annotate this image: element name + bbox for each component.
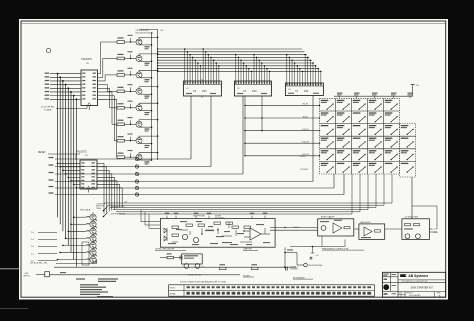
- svg-text:RESET: RESET: [38, 152, 46, 154]
- transistor tree Q10-Q16 cascade: [90, 212, 97, 262]
- wire microphone drop: [284, 247, 297, 268]
- svg-text:CH 2(+8) SEL, 285: CH 2(+8) SEL, 285: [30, 263, 48, 265]
- connector pin table J2: [169, 285, 375, 296]
- op-amp U1 74154 decoder: [183, 79, 221, 98]
- node J1 271 4279 connector: [429, 229, 437, 234]
- keyswitch S1-S34 cells with switch symbols: [321, 100, 414, 173]
- op-amp U7 level indicator and limiter block: [160, 213, 275, 248]
- node FREQUENCY DETECTOR label: [322, 248, 364, 250]
- node drawing number row: [398, 292, 441, 298]
- note S-POS connectors line: [180, 281, 226, 284]
- capacitor trunk stubs: [180, 256, 182, 260]
- node FILTER label: [243, 275, 254, 277]
- node TELEPHONE COUPLER label: [193, 215, 225, 219]
- svg-text:ISOLATED: ISOLATED: [215, 216, 225, 219]
- svg-text:2N2222A OR 2N4401): 2N2222A OR 2N4401): [135, 31, 153, 34]
- op-amp U5 74LS373 latch: [81, 57, 98, 110]
- svg-text:GEN-MODE: GEN-MODE: [360, 222, 371, 224]
- svg-text:PRELOADA: PRELOADA: [80, 209, 91, 212]
- node revision stamp: [383, 274, 396, 295]
- svg-text:DNX STARTER KIT: DNX STARTER KIT: [411, 286, 433, 289]
- svg-text:(5+3) OFF SEL: (5+3) OFF SEL: [41, 107, 56, 109]
- node LEVEL INDICATOR label: [155, 248, 186, 251]
- power +5V rail for transistor bank: [135, 29, 164, 160]
- wire RESET line: [38, 152, 80, 160]
- keyswitch matrix grid: [320, 98, 400, 174]
- svg-text:E12-15: E12-15: [302, 129, 309, 131]
- svg-text:E8-11: E8-11: [303, 116, 309, 118]
- svg-text:154: 154: [202, 89, 207, 93]
- notes text block: [60, 272, 118, 297]
- wire bus taps into U6: [57, 163, 80, 189]
- op-amp U10 mode generator block: [385, 216, 430, 239]
- wire U6 right outputs staircase: [97, 163, 122, 213]
- resistor R47 attenuator pad: [252, 264, 259, 269]
- border frame: [21, 21, 446, 297]
- svg-text:74: 74: [193, 89, 196, 93]
- op-amp U2 74154 decoder: [234, 81, 271, 96]
- svg-text:E24-27: E24-27: [300, 156, 306, 158]
- svg-text:E16-19: E16-19: [302, 142, 309, 144]
- microphone MK1: [297, 263, 323, 267]
- svg-text:DWG NO.: DWG NO.: [406, 292, 413, 294]
- op-amp U9 gen mode block: [354, 222, 385, 240]
- wire tree emitter down to rail: [56, 259, 97, 263]
- node ATTENUATE label: [293, 276, 313, 279]
- svg-text:154: 154: [252, 89, 257, 93]
- svg-text:INPUT: INPUT: [24, 275, 31, 277]
- op-amp U6 74LS373 latch lower: [76, 149, 97, 192]
- wire base feeds into transistor tree: [57, 216, 90, 260]
- svg-text:+12 MODE GEN: +12 MODE GEN: [404, 216, 419, 218]
- svg-text:154: 154: [304, 89, 309, 93]
- node AB Systems logo: [400, 274, 428, 283]
- svg-text:TELEPHONE: TELEPHONE: [193, 215, 205, 217]
- svg-text:4279: 4279: [434, 232, 438, 234]
- svg-text:CERAMIC: CERAMIC: [290, 268, 299, 271]
- svg-text:MICROPHONE: MICROPHONE: [309, 265, 323, 267]
- op-amp U8 alert oscillator block: [270, 215, 354, 236]
- svg-text:/LOADA: /LOADA: [44, 108, 52, 111]
- svg-text:4/98: 4/98: [437, 293, 440, 295]
- wire lower left stub labels: [31, 232, 57, 262]
- resistor R46 600ohm: [220, 264, 227, 269]
- node CH2 SEL label: [30, 263, 48, 265]
- wire left input lines to U5: [45, 73, 81, 100]
- svg-text:TREE: TREE: [96, 208, 102, 210]
- wire row feed lines E4-E23 into matrix: [244, 96, 320, 157]
- transistor bank Q1-Q8 relay drivers: [136, 37, 158, 165]
- svg-text:AB Systems: AB Systems: [408, 274, 428, 278]
- wire U3 pin drops from bus: [286, 54, 322, 83]
- svg-text:LEVEL INDICATOR: LEVEL INDICATOR: [155, 248, 175, 251]
- power +15V input: [24, 272, 241, 278]
- keyswitch matrix extended column: [400, 124, 416, 177]
- svg-text:74: 74: [243, 89, 246, 93]
- title block: [382, 272, 445, 297]
- wire data bus verticals: [57, 73, 78, 267]
- resistor R45 input: [160, 253, 182, 258]
- node connector bracket at tree: [82, 242, 89, 265]
- node DNX STARTER KIT title: [411, 286, 433, 289]
- wire LOADA enable line: [41, 106, 87, 112]
- diode bank D1-D7 on return lines: [49, 157, 139, 196]
- svg-text:SIZE: SIZE: [399, 293, 402, 295]
- wire audio rail: [54, 266, 296, 267]
- wire U2 pin drops from bus: [235, 54, 270, 81]
- svg-text:SIGNAL: SIGNAL: [170, 293, 176, 296]
- svg-text:74LS373: 74LS373: [76, 149, 87, 153]
- svg-text:S-POS CONNECTORS (TAILBLAZED): S-POS CONNECTORS (TAILBLAZED) ONE TO ONE…: [180, 281, 226, 284]
- control switch tree labels: [80, 202, 128, 218]
- svg-text:74LS373: 74LS373: [81, 57, 92, 61]
- svg-text:E4-E7: E4-E7: [303, 104, 309, 106]
- svg-text:D-9 100285: D-9 100285: [409, 295, 421, 297]
- wire top select bus: [157, 48, 321, 72]
- capacitor C20 contact ceramic: [286, 266, 300, 271]
- svg-text:7110 REP. 500, Ca 92612-517 IN: 7110 REP. 500, Ca 92612-517 INC: [402, 281, 429, 283]
- svg-text:ALERT ON OFF: ALERT ON OFF: [321, 215, 336, 218]
- wire fan from U5 outputs to transistor bank: [98, 42, 118, 157]
- scan artifact marks: [0, 269, 28, 309]
- transformer T1 coupling block: [182, 254, 203, 277]
- resistor bank R1-R8 base resistors: [117, 35, 136, 159]
- power +5V rail above keyswitch matrix: [334, 85, 420, 99]
- node O1 reference circle: [46, 48, 50, 52]
- svg-text:LM 324: LM 324: [293, 227, 299, 229]
- wire mid horizontal trunk lines: [104, 174, 437, 232]
- node LIMITER label: [243, 249, 258, 251]
- wire nested return lines to diode bank: [55, 96, 344, 195]
- wire U1 pin drops from bus: [184, 48, 220, 81]
- wire frequency detector bottom net: [290, 236, 345, 260]
- op-amp U3 74154 decoder: [285, 83, 323, 96]
- svg-text:OUT-KEY: OUT-KEY: [300, 169, 309, 171]
- svg-text:PIN NO: PIN NO: [170, 288, 177, 290]
- svg-text:+5V: +5V: [160, 30, 164, 32]
